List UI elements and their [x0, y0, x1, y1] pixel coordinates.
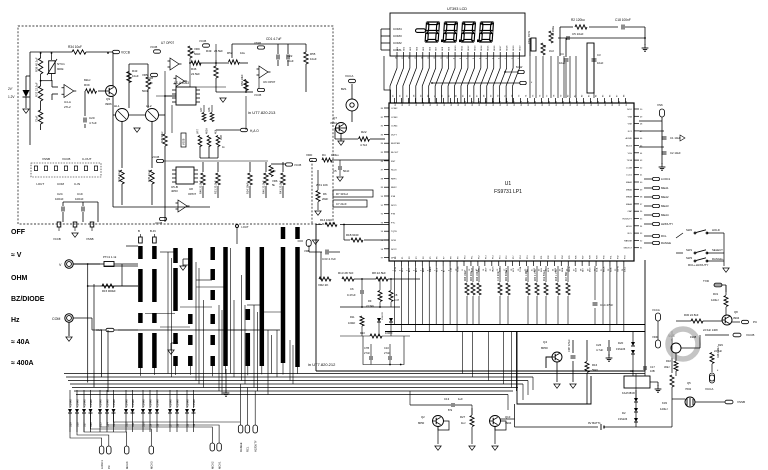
svg-text:SG19: SG19: [528, 100, 530, 106]
svg-text:22.5kF: 22.5kF: [214, 49, 223, 53]
svg-text:100KF: 100KF: [385, 331, 393, 335]
svg-text:40A: 40A: [215, 129, 218, 134]
svg-text:U4-A: U4-A: [64, 100, 71, 104]
svg-text:VCCB: VCCB: [199, 39, 206, 43]
svg-text:in UT7.820.212: in UT7.820.212: [308, 362, 336, 367]
svg-text:R9: R9: [368, 299, 372, 303]
svg-text:SE17: SE17: [500, 45, 502, 51]
svg-text:NTC1: NTC1: [57, 62, 65, 66]
svg-text:22.5uF 1408: 22.5uF 1408: [703, 328, 718, 332]
svg-text:MCA1: MCA1: [217, 461, 221, 469]
svg-text:HZ/DUTY: HZ/DUTY: [253, 440, 257, 452]
svg-text:R20 600ku: R20 600ku: [506, 269, 508, 281]
svg-text:GP24: GP24: [395, 266, 397, 272]
svg-text:R31: R31: [713, 292, 719, 296]
svg-text:R35 50kJ: R35 50kJ: [160, 131, 164, 143]
svg-text:R26 10ku: R26 10ku: [465, 270, 467, 281]
svg-text:R41 23.5kF: R41 23.5kF: [279, 180, 283, 194]
svg-text:SELECT: SELECT: [623, 248, 632, 250]
svg-text:VSSB: VSSB: [183, 138, 186, 145]
svg-text:TXD: TXD: [703, 279, 710, 283]
svg-text:R1B 9040: R1B 9040: [346, 233, 359, 237]
svg-text:C10 27nF: C10 27nF: [498, 270, 500, 281]
svg-text:SG28: SG28: [591, 100, 593, 106]
svg-text:Q8: Q8: [734, 310, 738, 314]
svg-text:73uF: 73uF: [35, 115, 39, 122]
svg-text:22.5kF: 22.5kF: [191, 72, 200, 76]
svg-text:U7 OP07: U7 OP07: [161, 41, 174, 45]
svg-text:VCCB: VCCB: [121, 51, 130, 55]
svg-text:R23 200u: R23 200u: [471, 270, 473, 281]
svg-text:K1N48: K1N48: [76, 399, 79, 407]
svg-text:RDA: RDA: [561, 267, 564, 272]
svg-text:≈ V: ≈ V: [11, 252, 22, 259]
svg-text:U6 OP07: U6 OP07: [263, 80, 276, 84]
svg-text:ONV: ONV: [485, 267, 487, 272]
svg-text:K1N48: K1N48: [99, 399, 102, 407]
svg-text:C24: C24: [57, 192, 63, 196]
svg-text:SE15: SE15: [487, 45, 489, 51]
svg-text:VS6: VS6: [657, 103, 663, 107]
svg-text:27L2: 27L2: [64, 105, 71, 109]
svg-text:R18 1.1Tk0: R18 1.1Tk0: [556, 268, 558, 281]
svg-text:R13 28.7kF: R13 28.7kF: [338, 271, 354, 275]
svg-text:SG15: SG15: [500, 100, 502, 106]
svg-text:SG12: SG12: [479, 100, 481, 106]
svg-text:R40 22.5kF: R40 22.5kF: [199, 180, 203, 194]
svg-text:SE18: SE18: [507, 45, 509, 51]
svg-text:in UT7.820.213: in UT7.820.213: [248, 110, 276, 115]
svg-text:HL1: HL1: [114, 104, 120, 108]
svg-text:R15 900kF: R15 900kF: [102, 289, 116, 293]
svg-text:50kF: 50kF: [194, 52, 201, 56]
svg-text:3904: 3904: [733, 316, 740, 320]
svg-text:C26: C26: [596, 343, 602, 347]
svg-text:VCCB: VCCB: [53, 237, 61, 241]
svg-text:900k: 900k: [57, 67, 64, 71]
svg-text:COM: COM: [57, 182, 65, 186]
svg-text:4053: 4053: [171, 189, 178, 193]
svg-text:400A: 400A: [206, 128, 209, 134]
svg-text:SE19: SE19: [513, 45, 515, 51]
svg-text:SMOK: SMOK: [569, 265, 571, 272]
svg-text:VSS: VSS: [628, 153, 633, 155]
svg-text:9V BATT1: 9V BATT1: [588, 421, 601, 425]
svg-text:VCCB: VCCB: [294, 163, 301, 167]
svg-text:SG20: SG20: [535, 100, 537, 106]
svg-text:I-OUT: I-OUT: [36, 182, 44, 186]
svg-text:R1 200ku: R1 200ku: [552, 25, 555, 36]
svg-text:Q5: Q5: [687, 381, 691, 385]
svg-text:M-W: M-W: [516, 65, 522, 69]
svg-text:D10: D10: [142, 422, 145, 427]
svg-text:Q7: Q7: [333, 116, 337, 120]
svg-text:TOTA: TOTA: [519, 266, 522, 272]
svg-text:2V': 2V': [8, 87, 13, 91]
svg-text:VDD: VDD: [652, 335, 658, 339]
svg-text:RANGE+: RANGE+: [712, 257, 724, 261]
svg-text:CD1 4.7uF: CD1 4.7uF: [266, 37, 281, 41]
svg-text:HOLD: HOLD: [712, 228, 720, 232]
svg-text:10uF: 10uF: [287, 59, 294, 63]
svg-text:C33 4.7uF: C33 4.7uF: [322, 257, 336, 261]
svg-text:HZ/DUTY: HZ/DUTY: [623, 219, 633, 221]
svg-text:22.5kF: 22.5kF: [366, 304, 374, 308]
svg-text:SG14: SG14: [493, 100, 495, 106]
svg-text:120kJ: 120kJ: [660, 407, 668, 411]
svg-text:NC21: NC21: [391, 205, 397, 207]
svg-text:TQTE: TQTE: [391, 231, 397, 233]
svg-text:C4: C4: [560, 52, 564, 56]
svg-text:K1N48: K1N48: [83, 399, 86, 407]
svg-text:PTC1 1.1k: PTC1 1.1k: [103, 255, 117, 259]
svg-text:C5 10uF: C5 10uF: [572, 32, 584, 36]
svg-text:R16: R16: [592, 363, 598, 367]
svg-text:≈ 400A: ≈ 400A: [11, 360, 34, 367]
svg-text:R27: R27: [460, 415, 466, 419]
svg-text:R19 57ku0: R19 57ku0: [544, 269, 546, 281]
svg-text:R22: R22: [361, 130, 367, 134]
svg-text:MCA3: MCA3: [150, 461, 154, 469]
svg-text:C20: C20: [89, 116, 95, 120]
svg-text:R37 22.5uF: R37 22.5uF: [35, 82, 39, 97]
svg-text:R17 5M0: R17 5M0: [566, 271, 568, 281]
svg-text:MEA1: MEA1: [661, 186, 669, 190]
svg-text:BZ/DIODE: BZ/DIODE: [11, 296, 45, 303]
svg-text:COM2: COM2: [393, 41, 402, 45]
svg-text:SG29: SG29: [598, 100, 600, 106]
svg-text:VSB: VSB: [628, 116, 633, 118]
svg-text:C17: C17: [650, 365, 655, 369]
svg-text:MEA4: MEA4: [661, 213, 669, 217]
svg-text:VCCA: VCCA: [705, 387, 713, 391]
svg-text:10uF: 10uF: [559, 61, 566, 65]
svg-text:R10: R10: [360, 331, 365, 335]
svg-text:REF1: REF1: [391, 178, 397, 180]
svg-text:NC20: NC20: [391, 170, 397, 172]
svg-text:20kF: 20kF: [322, 197, 329, 201]
svg-text:ЧUБ: ЧUБ: [668, 334, 676, 338]
svg-text:120kJ: 120kJ: [711, 298, 719, 302]
svg-text:OPD7: OPD7: [188, 192, 197, 196]
svg-text:VCCA: VCCA: [652, 308, 660, 312]
svg-text:R43: R43: [132, 69, 138, 73]
svg-text:VSSB: VSSB: [86, 237, 94, 241]
svg-text:VCCB: VCCB: [150, 45, 157, 49]
svg-text:HL2: HL2: [146, 104, 152, 108]
svg-text:LCDC1: LCDC1: [100, 460, 104, 469]
svg-text:FTC: FTC: [391, 222, 396, 224]
svg-text:C5: C5: [333, 169, 337, 173]
svg-text:OFF: OFF: [11, 229, 26, 236]
svg-text:1uF: 1uF: [458, 397, 463, 401]
svg-text:RANGE: RANGE: [624, 239, 632, 242]
svg-text:8050: 8050: [418, 421, 425, 425]
svg-text:1908: 1908: [690, 335, 697, 339]
svg-text:R55: R55: [310, 52, 316, 56]
svg-text:K1N48: K1N48: [149, 399, 152, 407]
svg-text:1MJ: 1MJ: [549, 50, 554, 53]
svg-text:R34 10uF: R34 10uF: [68, 45, 82, 49]
svg-text:R54 10kF: R54 10kF: [246, 182, 250, 194]
svg-text:K1N48: K1N48: [113, 399, 116, 407]
svg-text:DPO: DPO: [391, 258, 396, 260]
svg-text:82kJ: 82kJ: [84, 78, 91, 82]
svg-text:1.2V: 1.2V: [8, 95, 15, 99]
svg-text:SE16: SE16: [494, 45, 496, 51]
svg-text:MEA1: MEA1: [626, 181, 633, 184]
svg-text:RANGE: RANGE: [239, 442, 243, 452]
svg-text:R48: R48: [208, 107, 211, 112]
svg-text:D12: D12: [125, 422, 128, 427]
svg-text:R6: R6: [323, 192, 327, 196]
svg-text:DUTY: DUTY: [391, 134, 397, 136]
svg-text:D20: D20: [618, 341, 624, 345]
svg-text:MCA2: MCA2: [211, 461, 215, 469]
svg-text:R40 22.5kF: R40 22.5kF: [262, 180, 266, 194]
svg-text:100kF: 100kF: [348, 321, 356, 325]
svg-text:PC: PC: [107, 465, 111, 469]
svg-text:VSSB: VSSB: [146, 76, 153, 80]
svg-text:SG31: SG31: [612, 100, 614, 106]
svg-text:SG26: SG26: [577, 100, 579, 106]
svg-text:LCDC1: LCDC1: [661, 177, 671, 181]
svg-text:VDD: VDD: [306, 153, 313, 157]
svg-text:SGND: SGND: [458, 266, 460, 272]
svg-text:1SS226: 1SS226: [382, 311, 384, 320]
svg-text:SG18: SG18: [521, 100, 523, 106]
svg-text:K1N48: K1N48: [176, 399, 179, 407]
svg-text:R33 0.1Tk0: R33 0.1Tk0: [535, 268, 537, 281]
svg-text:RCL: RCL: [628, 233, 633, 235]
svg-text:8050: 8050: [541, 346, 548, 350]
svg-text:D11: D11: [132, 422, 135, 427]
svg-text:Q4: Q4: [543, 340, 547, 344]
svg-text:C19: C19: [77, 192, 83, 196]
svg-text:C6: C6: [350, 287, 354, 291]
svg-text:TEPW: TEPW: [617, 266, 619, 272]
svg-text:R46: R46: [191, 67, 197, 71]
svg-text:NC22: NC22: [391, 249, 397, 251]
svg-text:VCCB: VCCB: [152, 155, 159, 159]
svg-text:MEA3: MEA3: [626, 196, 633, 199]
svg-text:VR7: VR7: [197, 129, 200, 134]
svg-text:Q10: Q10: [505, 415, 511, 419]
svg-text:R38 45.3uF: R38 45.3uF: [35, 57, 39, 72]
svg-text:NCS: NCS: [548, 267, 550, 272]
svg-text:X'TAL 4MHz: X'TAL 4MHz: [528, 30, 531, 44]
svg-text:50nF: 50nF: [343, 169, 350, 173]
svg-text:K1N48: K1N48: [169, 399, 172, 407]
svg-text:SE11: SE11: [462, 45, 464, 51]
svg-text:R30 22.5kF: R30 22.5kF: [684, 313, 699, 317]
svg-text:SG33: SG33: [626, 100, 628, 106]
svg-text:30kJ: 30kJ: [664, 365, 670, 369]
svg-text:K1N48: K1N48: [132, 399, 135, 407]
svg-text:0.47: 0.47: [394, 298, 400, 302]
svg-text:COM4: COM4: [391, 126, 398, 128]
svg-text:MEA4: MEA4: [626, 203, 633, 206]
svg-text:K1N48: K1N48: [156, 399, 159, 407]
svg-text:REF2: REF2: [391, 187, 397, 189]
svg-text:C2 10uF: C2 10uF: [670, 151, 681, 155]
svg-text:COM3: COM3: [393, 34, 402, 38]
svg-text:R32: R32: [666, 359, 671, 363]
svg-text:R28 200kJ: R28 200kJ: [717, 346, 720, 358]
svg-text:R11: R11: [350, 315, 355, 319]
svg-text:1kJ: 1kJ: [461, 421, 466, 425]
svg-text:SG25: SG25: [570, 100, 572, 106]
svg-text:R53 10kF: R53 10kF: [240, 74, 244, 86]
svg-text:SE12: SE12: [468, 45, 470, 51]
svg-text:VSSB: VSSB: [42, 157, 50, 161]
svg-text:SW1: SW1: [686, 248, 693, 252]
svg-text:SE20: SE20: [520, 45, 522, 51]
svg-text:BZ1: BZ1: [341, 87, 347, 91]
svg-text:C13: C13: [444, 397, 450, 401]
svg-text:C36* 470uF: C36* 470uF: [568, 339, 571, 352]
svg-text:R44 10uF: R44 10uF: [117, 169, 121, 182]
svg-text:FS9731 LP1: FS9731 LP1: [494, 189, 522, 195]
svg-text:RST: RST: [391, 161, 396, 163]
svg-text:K1N48: K1N48: [142, 399, 145, 407]
svg-text:COM3: COM3: [391, 117, 398, 119]
svg-text:MEA3: MEA3: [661, 204, 669, 208]
svg-text:R7 315uJ: R7 315uJ: [336, 192, 349, 196]
svg-text:R31 23.5kF: R31 23.5kF: [214, 180, 218, 194]
svg-text:BUZPER: BUZPER: [391, 143, 400, 145]
svg-text:MCA4: MCA4: [125, 461, 129, 469]
svg-text:VAOS: VAOS: [491, 266, 494, 272]
svg-text:R29: R29: [718, 343, 723, 347]
svg-text:C1 10uF: C1 10uF: [670, 136, 681, 140]
svg-text:RCL: RCL: [246, 446, 250, 452]
svg-text:≈ 40A: ≈ 40A: [11, 339, 30, 346]
svg-text:K1N48: K1N48: [69, 399, 72, 407]
svg-text:VR2 2K: VR2 2K: [318, 283, 328, 287]
svg-text:CAP: CAP: [628, 210, 633, 213]
svg-text:NOB: NOB: [610, 267, 612, 272]
svg-text:4.7uF: 4.7uF: [596, 348, 603, 352]
svg-text:Hz: Hz: [11, 317, 20, 324]
svg-text:KA4728/30: KA4728/30: [622, 391, 635, 395]
svg-text:C10: C10: [384, 346, 389, 350]
svg-text:H₂/LO: H₂/LO: [250, 129, 259, 133]
svg-text:K33: K33: [662, 401, 667, 405]
svg-text:10uF: 10uF: [132, 74, 139, 78]
svg-text:1SS226: 1SS226: [618, 417, 628, 421]
svg-text:I-OUT: I-OUT: [241, 225, 249, 229]
svg-text:SG32: SG32: [619, 100, 621, 106]
svg-text:R24 100kF: R24 100kF: [477, 269, 479, 281]
svg-text:K1N48: K1N48: [125, 399, 128, 407]
svg-text:SG17: SG17: [514, 100, 516, 106]
svg-text:K1N48: K1N48: [186, 399, 189, 407]
svg-text:7602: 7602: [685, 387, 692, 391]
svg-text:R21 1.2M: R21 1.2M: [526, 271, 528, 281]
svg-text:B: B: [138, 229, 140, 233]
svg-text:SG21: SG21: [542, 100, 544, 106]
svg-text:3904: 3904: [330, 121, 337, 125]
svg-text:R2 120ku: R2 120ku: [571, 18, 585, 22]
svg-text:LCDB: LCDB: [626, 167, 632, 169]
svg-text:SW3: SW3: [686, 256, 693, 260]
svg-text:TSTA: TSTA: [627, 159, 633, 162]
svg-text:VR9: VR9: [194, 47, 200, 51]
svg-text:R47: R47: [200, 107, 203, 112]
svg-text:C18 100nF: C18 100nF: [615, 18, 631, 22]
svg-text:VCCB: VCCB: [155, 221, 162, 225]
svg-text:100nF: 100nF: [75, 197, 84, 201]
svg-text:SE10: SE10: [455, 45, 457, 51]
svg-text:RCL: RCL: [661, 234, 667, 238]
svg-text:4.7uF: 4.7uF: [89, 121, 97, 125]
svg-text:VCCB: VCCB: [62, 157, 70, 161]
svg-text:FTA: FTA: [391, 195, 396, 198]
svg-text:COM: COM: [52, 317, 60, 321]
svg-text:LCD1: LCD1: [626, 175, 632, 177]
svg-text:Q2: Q2: [421, 415, 425, 419]
svg-text:K1N48: K1N48: [106, 399, 109, 407]
svg-text:K1N48: K1N48: [90, 399, 93, 407]
svg-text:VR8: VR8: [220, 135, 223, 140]
svg-text:R4: R4: [322, 153, 326, 157]
svg-text:R45 10uF: R45 10uF: [147, 169, 151, 182]
svg-text:10u: 10u: [240, 51, 245, 55]
svg-text:SG10: SG10: [465, 100, 467, 106]
svg-text:FTB: FTB: [391, 214, 396, 216]
svg-text:SG16: SG16: [507, 100, 509, 106]
svg-text:U1: U1: [505, 181, 512, 187]
svg-text:SE14: SE14: [481, 45, 483, 51]
svg-text:VSE: VSE: [628, 124, 633, 126]
svg-text:SELECT: SELECT: [712, 248, 723, 252]
svg-text:SG24: SG24: [563, 100, 565, 106]
svg-text:R49: R49: [206, 49, 212, 53]
svg-text:OHM: OHM: [11, 275, 28, 282]
svg-text:27nF: 27nF: [364, 351, 370, 355]
svg-text:D2: D2: [622, 411, 626, 415]
svg-text:VCCB: VCCB: [746, 333, 754, 337]
svg-text:LS-A 4053: LS-A 4053: [174, 81, 189, 85]
svg-text:SG30: SG30: [605, 100, 607, 106]
svg-text:COM4: COM4: [393, 27, 402, 31]
svg-text:R14 10k0: R14 10k0: [320, 218, 332, 222]
svg-text:SG27: SG27: [584, 100, 586, 106]
svg-text:VSSB: VSSB: [254, 41, 261, 45]
svg-text:NCO: NCO: [627, 109, 632, 111]
svg-text:K1N48: K1N48: [193, 399, 196, 407]
svg-text:U8: U8: [189, 187, 193, 191]
svg-text:BNOK: BNOK: [604, 266, 606, 272]
svg-text:C7B: C7B: [364, 346, 369, 350]
svg-text:RANGE: RANGE: [661, 241, 671, 245]
svg-text:SG13: SG13: [486, 100, 488, 106]
svg-text:0.47uF: 0.47uF: [347, 293, 356, 297]
svg-text:HZ/DUTY: HZ/DUTY: [661, 222, 673, 226]
svg-text:VSSB: VSSB: [737, 400, 745, 404]
svg-text:SE13: SE13: [474, 45, 476, 51]
svg-text:C-IN: C-IN: [74, 182, 80, 186]
svg-text:C8: C8: [394, 293, 398, 297]
svg-text:R39: R39: [84, 83, 90, 87]
svg-text:ACMD: ACMD: [626, 137, 633, 140]
svg-text:1SS226: 1SS226: [616, 347, 626, 351]
svg-text:RCL+Hz/DUTY: RCL+Hz/DUTY: [688, 263, 708, 267]
svg-text:Q9: Q9: [106, 97, 110, 101]
svg-text:4.7kJ: 4.7kJ: [360, 143, 368, 147]
svg-text:100ku: 100ku: [331, 153, 339, 157]
